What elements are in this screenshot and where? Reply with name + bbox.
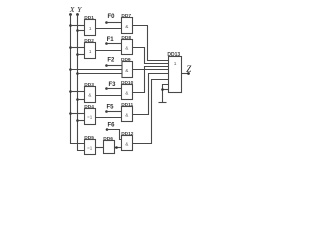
wire X to DD4 input 1 [71,113,85,115]
gate DD13 (OR) box [169,57,182,93]
junction X rail to DD1 [69,24,72,27]
junction Y rail to DD4 [76,119,79,122]
svg-text:=1: =1 [87,146,93,151]
svg-text:DD2: DD2 [84,38,94,44]
wire DD7 output to DD13 input 1 [133,26,169,61]
svg-text:F1: F1 [107,37,115,43]
node F3 terminal [105,87,108,90]
svg-text:=1: =1 [87,115,93,120]
wire F1 to DD8 input 1 [107,43,122,45]
svg-text:Y: Y [77,5,82,14]
junction X rail to DD2 [69,46,72,49]
svg-text:DD12: DD12 [121,131,134,137]
gate DD9 (AND) box [122,62,133,78]
svg-text:&: & [125,24,128,29]
node F6 terminal [106,128,109,131]
wire DD9 output to DD13 input 4 [133,69,169,71]
wire X to DD9 input 2 [71,69,123,71]
wire DD12 output to DD13 input 6 [133,80,169,144]
svg-text:&: & [88,93,91,98]
svg-text:X: X [69,5,75,14]
wire Y to DD2 input 2 [78,54,85,56]
wire X to DD1 input 1 [71,25,85,27]
gate DD4 (XOR) box [85,109,96,125]
svg-text:DD6: DD6 [103,136,113,142]
svg-text:DD3: DD3 [84,82,94,88]
svg-text:DD4: DD4 [84,104,94,110]
gate DD1 (OR) box [85,20,96,36]
svg-text:1: 1 [89,26,92,31]
wire F0 to DD7 input 1 [107,22,122,24]
wire F5 to DD11 input 1 [107,111,122,113]
wire DD4 output to DD11 [96,117,122,119]
wire Y to DD3 input 2 [78,99,85,101]
svg-text:F6: F6 [108,123,116,129]
wire DD2 output to DD8 [96,50,122,52]
wire F2 to DD9 input 1 [107,65,123,67]
node F5 terminal [105,110,108,113]
wire DD10 output to DD13 input 3 [133,67,169,93]
junction DD6 output [115,146,118,149]
svg-text:1: 1 [89,49,92,54]
wire ground stub to DD13 input 8 [163,89,169,91]
junction Y rail to DD2 [76,53,79,56]
svg-text:F2: F2 [107,58,115,64]
gate DD2 (OR) box [85,43,96,59]
junction X rail to DD3 [69,90,72,93]
node F0 terminal [105,21,108,24]
ground vertical and stub to DD13 input 7 [163,85,169,103]
wire DD1 output to DD7 [96,28,122,30]
junction Y rail to DD3 [76,98,79,101]
junction X rail to DD9 [69,68,72,71]
svg-text:&: & [125,68,128,73]
svg-text:F0: F0 [108,14,116,20]
wire Y to DD4 input 2 [78,120,85,122]
wire DD11 output to DD13 input 5 [133,74,169,115]
svg-text:&: & [125,45,128,50]
svg-text:DD1: DD1 [84,15,94,21]
svg-text:&: & [125,90,128,95]
gate DD7 (AND) box [122,18,133,34]
wire Y to DD1 input 2 [78,30,85,32]
svg-text:DD5: DD5 [84,135,94,141]
svg-text:Z: Z [186,64,192,74]
wire DD13 output to Z [182,73,189,75]
svg-text:DD9: DD9 [121,57,131,63]
wire F6 to DD12 input 1 (jog) [107,130,122,140]
svg-text:DD7: DD7 [121,13,131,19]
node Y terminal dot [76,13,79,16]
wire X to DD2 input 1 [71,47,85,49]
svg-text:DD10: DD10 [121,80,134,86]
node X terminal dot [69,13,72,16]
svg-text:DD8: DD8 [121,35,131,41]
node Z terminal dot [187,72,190,75]
wire X rail vertical [71,15,85,144]
gate DD12 (AND) box [122,136,133,151]
svg-text:&: & [125,112,128,117]
ground bar [159,102,167,104]
junction Y rail to DD9 [76,72,79,75]
wire DD6 output to DD12 [115,147,122,149]
node F2 terminal [105,64,108,67]
svg-text:F5: F5 [107,105,115,111]
wire DD8 output to DD13 input 2 [133,48,169,64]
gate DD5 (XOR) box [85,140,96,155]
gate DD8 (AND) box [122,40,133,55]
junction ground node [161,88,164,91]
wire F3 to DD10 input 1 [107,88,122,90]
wire Y to DD9 input 3 [78,73,123,75]
svg-text:1: 1 [174,61,177,67]
node F1 terminal [105,42,108,45]
gate DD11 (AND) box [122,107,133,122]
wire DD5 output to DD6 [96,147,104,149]
svg-text:F3: F3 [109,82,117,88]
svg-text:&: & [125,141,128,146]
gate DD6 box [104,141,115,154]
wire DD3 output to DD10 [96,95,122,97]
wire Y rail vertical [78,15,85,151]
junction Y rail to DD1 [76,29,79,32]
gate DD10 (AND) box [122,85,133,100]
svg-text:DD11: DD11 [121,102,133,108]
svg-text:DD13: DD13 [167,52,180,58]
wire X to DD3 input 1 [71,91,85,93]
junction X rail to DD4 [69,112,72,115]
gate DD3 (AND) box [85,87,96,103]
